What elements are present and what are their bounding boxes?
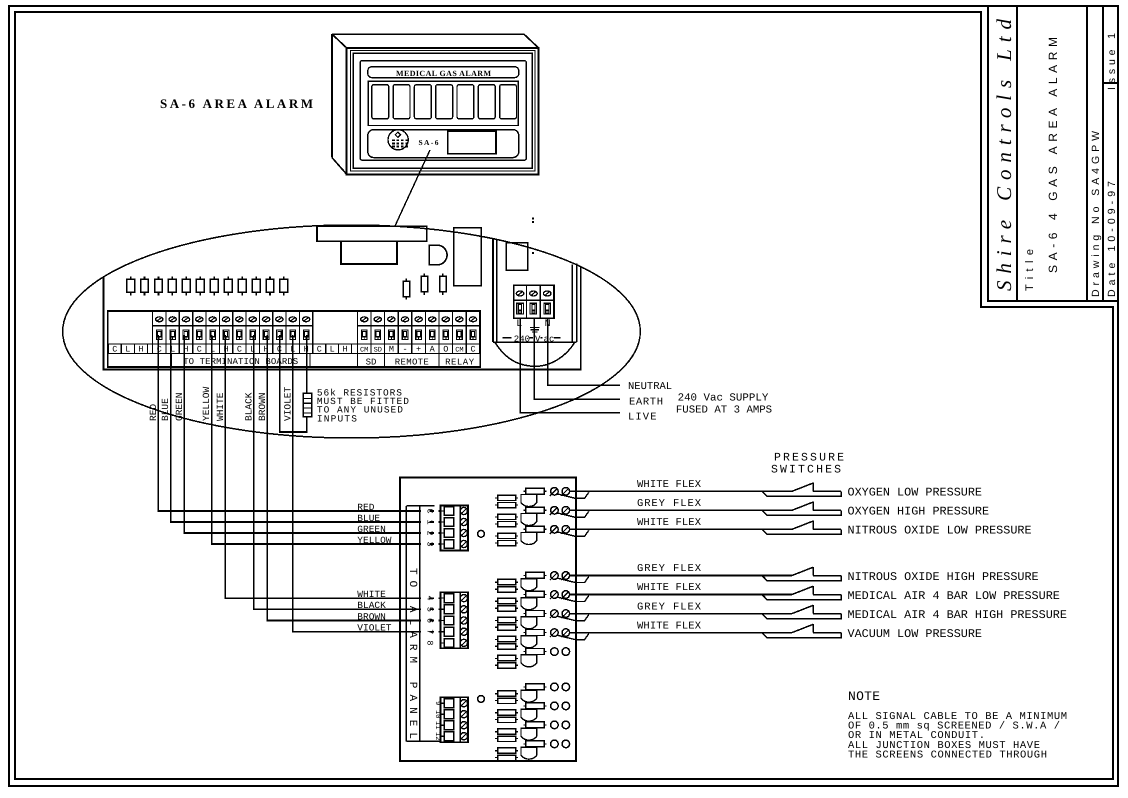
terminal strip group box SD bbox=[357, 354, 384, 368]
svg-text:GREEN: GREEN bbox=[357, 524, 386, 535]
resistor R4 (board) bbox=[168, 276, 176, 295]
junction row 10 dropper resistor pair bbox=[495, 710, 518, 723]
terminal TB3 row 10 clamp bbox=[441, 710, 454, 719]
svg-text:BLUE: BLUE bbox=[357, 513, 380, 524]
terminal strip input clamp 2 bbox=[170, 330, 176, 339]
svg-text:240 Vac SUPPLY: 240 Vac SUPPLY bbox=[678, 392, 769, 404]
svg-text:L: L bbox=[330, 345, 335, 355]
svg-text:OXYGEN LOW PRESSURE: OXYGEN LOW PRESSURE bbox=[848, 486, 983, 500]
terminal strip label cells bbox=[108, 344, 480, 355]
resistor R6 (board) bbox=[196, 276, 204, 295]
svg-text:TO TERMINATION BOARDS: TO TERMINATION BOARDS bbox=[183, 357, 298, 367]
junction row 7 LED lamp bbox=[521, 630, 547, 648]
wire BLACK bbox=[254, 335, 441, 609]
field wire pair stub row 3 bbox=[557, 530, 589, 536]
junction row 11 LED lamp bbox=[521, 722, 547, 740]
terminal strip input clamp 10 bbox=[277, 330, 283, 339]
terminal strip screw/clamp row divider bbox=[153, 325, 313, 327]
alarm panel window area bbox=[368, 81, 518, 125]
wire spare C4 bbox=[280, 335, 293, 432]
stray dot mark bbox=[532, 252, 534, 254]
PSU earth symbol bbox=[530, 320, 540, 332]
svg-text:-: - bbox=[402, 345, 407, 355]
alarm panel gas window 3 bbox=[414, 85, 431, 119]
terminal strip input column dividers bbox=[153, 311, 313, 344]
terminal strip band separator lines bbox=[108, 344, 480, 354]
svg-text:BLACK: BLACK bbox=[243, 392, 254, 421]
terminal TB2 row 4 clamp bbox=[441, 594, 454, 603]
svg-text:O: O bbox=[443, 345, 448, 355]
svg-text:10: 10 bbox=[433, 710, 441, 718]
wire GREEN bbox=[184, 335, 440, 533]
terminal TB1 row 1 clamp bbox=[441, 518, 454, 527]
resistor R15 (board right) bbox=[440, 273, 447, 294]
field wire pair stub row 2 bbox=[557, 511, 589, 517]
terminal strip input screw 9 bbox=[262, 317, 269, 322]
terminal TB3 row 9 clamp bbox=[441, 699, 454, 708]
terminal TB2 row 7 screw bbox=[460, 628, 467, 635]
svg-text:WHITE FLEX: WHITE FLEX bbox=[637, 517, 702, 529]
terminal strip input screw 6 bbox=[222, 317, 229, 322]
resistor R12 (board) bbox=[280, 276, 288, 295]
junction box outline bbox=[400, 478, 576, 761]
svg-text:GREY FLEX: GREY FLEX bbox=[637, 498, 702, 510]
svg-text:C: C bbox=[197, 345, 202, 355]
svg-text:7: 7 bbox=[424, 629, 434, 634]
svg-text:CM: CM bbox=[455, 347, 463, 355]
PCB board outline bbox=[103, 267, 580, 370]
PSU rating line segments bbox=[503, 337, 561, 339]
terminal strip output screw/clamp row divider bbox=[357, 325, 479, 327]
junction row 7 dropper resistor pair bbox=[495, 636, 518, 649]
terminal TB2 row 8 clamp bbox=[441, 639, 454, 648]
terminal strip input clamp 1 bbox=[156, 330, 162, 339]
junction row 9 LED lamp bbox=[521, 684, 547, 702]
terminal strip input screw 10 bbox=[276, 317, 283, 322]
terminal strip output clamp - bbox=[402, 330, 408, 339]
junction row 2 dropper resistor pair bbox=[495, 514, 518, 527]
pressure switch 7 bbox=[762, 624, 841, 638]
svg-text:6: 6 bbox=[424, 618, 434, 623]
note body text bbox=[848, 711, 1067, 761]
svg-text:+: + bbox=[416, 345, 421, 355]
svg-text:WHITE FLEX: WHITE FLEX bbox=[637, 582, 702, 594]
resistor R3 (board) bbox=[155, 276, 163, 295]
alarm panel gas window 5 bbox=[457, 85, 474, 119]
junction row 1 LED lamp bbox=[521, 488, 547, 506]
junction box inner panel TO ALARM PANEL bbox=[406, 506, 440, 742]
resistor R5 (board) bbox=[182, 276, 190, 295]
svg-text:EARTH: EARTH bbox=[629, 397, 663, 409]
terminal strip input screw 7 bbox=[236, 317, 243, 322]
terminal TB3 row 12 screw bbox=[460, 733, 467, 740]
svg-text:C: C bbox=[157, 345, 162, 355]
junction box mounting hole bottom bbox=[478, 696, 485, 703]
terminal strip output screw + bbox=[415, 317, 422, 322]
pressure switch 3 bbox=[762, 521, 841, 535]
svg-text:GREY FLEX: GREY FLEX bbox=[637, 563, 702, 575]
svg-text:SD: SD bbox=[366, 357, 377, 367]
svg-text:BLUE: BLUE bbox=[160, 398, 171, 421]
junction box terminal block TB3 bbox=[441, 697, 469, 742]
svg-text:L: L bbox=[516, 319, 522, 330]
junction row 4 screw terminal pair bbox=[550, 572, 570, 580]
field wire pair stub row 1 bbox=[557, 492, 589, 498]
alarm panel logo bbox=[388, 130, 408, 150]
junction row 8 dropper resistor pair bbox=[495, 655, 518, 668]
terminal strip output screw CM bbox=[361, 317, 368, 322]
terminal strip input clamp 12 bbox=[303, 330, 309, 339]
wire BLUE bbox=[171, 335, 441, 522]
svg-text:3: 3 bbox=[424, 541, 434, 546]
terminal strip input clamp 7 bbox=[237, 330, 243, 339]
junction row 1 dropper resistor pair bbox=[495, 495, 518, 508]
svg-text:RED: RED bbox=[148, 404, 159, 421]
title block frame bbox=[988, 6, 1118, 301]
svg-text:MEDICAL GAS ALARM: MEDICAL GAS ALARM bbox=[396, 69, 491, 78]
junction row 11 spare terminal pair bbox=[551, 721, 570, 729]
svg-text:NITROUS OXIDE LOW PRESSURE: NITROUS OXIDE LOW PRESSURE bbox=[848, 524, 1032, 538]
terminal TB1 row 2 screw bbox=[460, 529, 467, 536]
field wire row 3 bbox=[570, 528, 792, 530]
terminal strip input clamp 8 bbox=[250, 330, 256, 339]
junction box mounting hole top bbox=[478, 530, 485, 537]
junction row 6 screw terminal pair bbox=[550, 610, 570, 618]
junction row 12 LED lamp bbox=[521, 741, 547, 759]
terminal strip output clamp SD bbox=[375, 330, 381, 339]
terminal strip input clamp 5 bbox=[210, 330, 216, 339]
terminal TB2 row 4 screw bbox=[460, 595, 467, 602]
terminal number 1 bbox=[421, 518, 434, 525]
svg-text:H: H bbox=[342, 345, 347, 355]
terminal strip input screw 4 bbox=[196, 317, 203, 322]
terminal number 11 bbox=[430, 721, 441, 729]
terminal number C bbox=[421, 507, 434, 514]
terminal strip output clamp O bbox=[443, 330, 449, 339]
svg-text:V: V bbox=[535, 334, 541, 344]
field wire row 4 bbox=[570, 575, 792, 577]
terminal strip input screw 5 bbox=[209, 317, 216, 322]
terminal strip input clamp 6 bbox=[223, 330, 229, 339]
svg-text:RED: RED bbox=[357, 502, 374, 513]
junction row 8 spare terminal pair bbox=[551, 648, 570, 656]
junction row 9 dropper resistor pair bbox=[495, 691, 518, 704]
terminal strip output screw O bbox=[442, 317, 449, 322]
terminal TB2 row 5 screw bbox=[460, 606, 467, 613]
field wire row 5 bbox=[570, 594, 792, 596]
wire WHITE bbox=[225, 335, 440, 598]
svg-text:NOTE: NOTE bbox=[848, 689, 880, 704]
terminal TB1 row C clamp bbox=[441, 507, 454, 516]
junction box terminal block TB1 bbox=[441, 506, 469, 551]
resistor R8 (board) bbox=[224, 276, 232, 295]
alarm panel gas window 2 bbox=[393, 85, 410, 119]
svg-text:BROWN: BROWN bbox=[357, 611, 386, 622]
svg-text:4: 4 bbox=[424, 596, 434, 601]
terminal strip output screw CM bbox=[456, 317, 463, 322]
stray colon mark bbox=[532, 218, 534, 223]
pressure switch 2 bbox=[762, 502, 841, 516]
wire spare H4 with 56k resistor bbox=[293, 335, 312, 432]
terminal strip input clamp 4 bbox=[197, 330, 203, 339]
terminal strip input screw 2 bbox=[169, 317, 176, 322]
svg-text:INPUTS: INPUTS bbox=[317, 413, 357, 424]
field wire row 6 bbox=[570, 613, 792, 615]
heading PRESSURE SWITCHES bbox=[771, 452, 844, 477]
terminal number 12 bbox=[430, 732, 441, 740]
svg-text:8: 8 bbox=[424, 640, 434, 645]
terminal strip input screw 11 bbox=[289, 317, 296, 322]
terminal strip output screw C bbox=[469, 317, 476, 322]
detail balloon ellipse bbox=[63, 225, 641, 438]
pressure switch 5 bbox=[762, 586, 841, 600]
svg-text:CM: CM bbox=[360, 347, 368, 355]
svg-text:GREY FLEX: GREY FLEX bbox=[637, 601, 702, 613]
terminal strip input screw 8 bbox=[249, 317, 256, 322]
svg-text:C: C bbox=[424, 508, 434, 513]
pressure switch 4 bbox=[762, 567, 841, 581]
svg-text:NEUTRAL: NEUTRAL bbox=[628, 381, 672, 393]
alarm panel enclosure (3D box) bbox=[332, 34, 539, 174]
alarm panel gas window 7 bbox=[500, 85, 517, 119]
terminal strip output clamp CM bbox=[361, 330, 367, 339]
svg-text:5: 5 bbox=[424, 607, 434, 612]
board display ribbon rectangle bbox=[341, 241, 397, 264]
wire VIOLET bbox=[293, 335, 441, 632]
junction row 10 LED lamp bbox=[521, 703, 547, 721]
terminal number 9 bbox=[430, 700, 441, 707]
field wire row 2 bbox=[570, 509, 792, 511]
junction row 3 LED lamp bbox=[521, 526, 547, 544]
terminal number 8 bbox=[421, 639, 434, 646]
junction row 4 LED lamp bbox=[521, 572, 547, 590]
wire LIVE from L terminal bbox=[520, 318, 620, 412]
alarm panel gas window 1 bbox=[372, 85, 389, 119]
svg-text:L: L bbox=[125, 345, 130, 355]
terminal TB2 row 7 clamp bbox=[441, 627, 454, 636]
terminal strip input screw 12 bbox=[302, 317, 309, 322]
svg-text:A: A bbox=[430, 345, 436, 355]
pressure switch 1 bbox=[762, 483, 841, 497]
svg-text:YELLOW: YELLOW bbox=[357, 535, 392, 546]
terminal number 4 bbox=[421, 595, 434, 602]
alarm panel blank label window bbox=[448, 131, 496, 153]
terminal TB1 row 3 screw bbox=[460, 540, 467, 547]
board display connector rectangle bbox=[317, 226, 427, 241]
svg-text:VIOLET: VIOLET bbox=[357, 623, 392, 634]
terminal strip input screw 3 bbox=[182, 317, 189, 322]
terminal number 5 bbox=[421, 606, 434, 613]
terminal TB2 row 5 clamp bbox=[441, 605, 454, 614]
junction box terminal block TB2 bbox=[441, 592, 469, 648]
svg-text:2: 2 bbox=[424, 530, 434, 535]
terminal strip group box TO TERMINATION BOARDS bbox=[172, 354, 311, 368]
junction row 3 screw terminal pair bbox=[550, 526, 570, 534]
terminal TB3 row 10 screw bbox=[460, 711, 467, 718]
terminal TB2 row 8 screw bbox=[460, 639, 467, 646]
terminal strip outline bbox=[108, 311, 480, 367]
board buzzer (D-shape) bbox=[429, 245, 447, 265]
resistor R7 (board) bbox=[210, 276, 218, 295]
terminal strip output screw A bbox=[429, 317, 436, 322]
alarm panel nameplate MEDICAL GAS ALARM bbox=[368, 67, 519, 78]
terminal number 3 bbox=[421, 540, 434, 547]
terminal strip input screw 1 bbox=[156, 317, 163, 322]
resistor R14 (board right) bbox=[421, 273, 428, 294]
terminal strip input clamp 11 bbox=[290, 330, 296, 339]
svg-text:VACUUM LOW PRESSURE: VACUUM LOW PRESSURE bbox=[848, 627, 983, 641]
svg-text:SA-6 4 GAS AREA ALARM: SA-6 4 GAS AREA ALARM bbox=[1046, 37, 1060, 273]
terminal strip output clamp + bbox=[416, 330, 422, 339]
svg-text:C: C bbox=[237, 345, 242, 355]
PSU cable entry dip bbox=[495, 342, 575, 366]
terminal number 10 bbox=[430, 710, 441, 718]
junction row 2 LED lamp bbox=[521, 507, 547, 525]
svg-text:1: 1 bbox=[424, 519, 434, 524]
terminal strip output clamp CM bbox=[457, 330, 463, 339]
PSU enclosure bottom line bbox=[493, 341, 577, 343]
svg-text:REMOTE: REMOTE bbox=[395, 357, 429, 367]
junction row 4 dropper resistor pair bbox=[495, 579, 518, 592]
svg-text:BLACK: BLACK bbox=[357, 600, 386, 611]
svg-text:GREEN: GREEN bbox=[174, 392, 185, 421]
svg-text:RELAY: RELAY bbox=[445, 357, 475, 367]
terminal strip output clamp M bbox=[389, 330, 395, 339]
resistor R10 (board) bbox=[252, 276, 260, 295]
terminal TB1 row 3 clamp bbox=[441, 540, 454, 549]
wire EARTH from earth terminal bbox=[534, 318, 620, 399]
terminal strip input clamp 3 bbox=[183, 330, 189, 339]
resistor R13 (board right) bbox=[403, 278, 410, 299]
terminal strip output clamp C bbox=[470, 330, 476, 339]
terminal strip input clamp 9 bbox=[263, 330, 269, 339]
PSU mains terminal block 240V bbox=[514, 285, 554, 318]
svg-text:WHITE: WHITE bbox=[215, 392, 226, 421]
svg-text:LIVE: LIVE bbox=[628, 411, 657, 423]
svg-text:M: M bbox=[389, 345, 394, 355]
svg-text:H: H bbox=[138, 345, 143, 355]
svg-text:12: 12 bbox=[433, 732, 441, 740]
field wire row 1 bbox=[570, 490, 792, 492]
terminal strip output clamp A bbox=[429, 330, 435, 339]
note 56k resistors bbox=[317, 388, 409, 425]
svg-text:SD: SD bbox=[374, 347, 382, 355]
terminal number 7 bbox=[421, 628, 434, 635]
PSU enclosure left wall bbox=[493, 239, 497, 342]
svg-text:C: C bbox=[112, 345, 117, 355]
junction row 3 dropper resistor pair bbox=[495, 533, 518, 546]
junction row 12 spare terminal pair bbox=[551, 740, 570, 748]
svg-text:YELLOW: YELLOW bbox=[201, 386, 212, 421]
junction row 5 screw terminal pair bbox=[550, 591, 570, 599]
field wire pair stub row 6 bbox=[557, 615, 589, 621]
wire NEUTRAL from N terminal bbox=[548, 318, 620, 385]
wire RED bbox=[158, 335, 440, 511]
junction row 1 screw terminal pair bbox=[550, 488, 570, 496]
terminal strip output screw - bbox=[401, 317, 408, 322]
svg-text:240: 240 bbox=[514, 334, 530, 344]
field wire pair stub row 4 bbox=[557, 577, 589, 583]
junction row 8 LED lamp bbox=[521, 649, 547, 667]
resistor R9 (board) bbox=[238, 276, 246, 295]
svg-text:WHITE: WHITE bbox=[357, 589, 386, 600]
svg-text:VIOLET: VIOLET bbox=[282, 386, 293, 421]
resistor R11 (board) bbox=[266, 276, 274, 295]
terminal TB1 row 1 screw bbox=[460, 518, 467, 525]
junction row 7 screw terminal pair bbox=[550, 629, 570, 637]
svg-text:9: 9 bbox=[433, 701, 441, 705]
resistor R2 (board) bbox=[141, 276, 149, 295]
terminal TB2 row 6 screw bbox=[460, 617, 467, 624]
PSU enclosure right wall bbox=[572, 264, 577, 343]
terminal number 6 bbox=[421, 617, 434, 624]
junction row 2 screw terminal pair bbox=[550, 507, 570, 515]
terminal strip group box REMOTE bbox=[395, 354, 439, 368]
terminal number 2 bbox=[421, 529, 434, 536]
alarm panel gas window 4 bbox=[436, 85, 453, 119]
alarm panel bottom plate bbox=[368, 130, 519, 158]
junction row 12 dropper resistor pair bbox=[495, 748, 518, 761]
junction row 6 LED lamp bbox=[521, 611, 547, 629]
svg-text:Title: Title bbox=[1024, 249, 1036, 291]
svg-text:WHITE FLEX: WHITE FLEX bbox=[637, 479, 702, 491]
terminal strip output screw SD bbox=[374, 317, 381, 322]
svg-text:BROWN: BROWN bbox=[257, 392, 268, 421]
junction row 11 dropper resistor pair bbox=[495, 729, 518, 742]
terminal strip output screw M bbox=[388, 317, 395, 322]
junction row 10 spare terminal pair bbox=[551, 702, 570, 710]
field wire pair stub row 5 bbox=[557, 596, 589, 602]
pressure switch 6 bbox=[762, 605, 841, 619]
junction row 9 spare terminal pair bbox=[551, 683, 570, 691]
svg-text:THE SCREENS CONNECTED THROUGH: THE SCREENS CONNECTED THROUGH bbox=[848, 749, 1047, 761]
terminal strip output column dividers bbox=[357, 311, 479, 344]
field wire pair stub row 7 bbox=[557, 634, 589, 640]
PSU transformer rectangle bbox=[506, 243, 527, 270]
terminal TB3 row 11 screw bbox=[460, 722, 467, 729]
svg-text:ac: ac bbox=[544, 334, 555, 344]
svg-text:C: C bbox=[317, 345, 322, 355]
svg-text:MEDICAL AIR 4 BAR HIGH PRESSUR: MEDICAL AIR 4 BAR HIGH PRESSURE bbox=[848, 608, 1067, 622]
svg-text:FUSED AT 3 AMPS: FUSED AT 3 AMPS bbox=[676, 405, 772, 417]
svg-text:11: 11 bbox=[433, 721, 441, 729]
junction row 5 LED lamp bbox=[521, 591, 547, 609]
field wire row 7 bbox=[570, 632, 792, 634]
terminal TB2 row 6 clamp bbox=[441, 616, 454, 625]
terminal TB3 row 9 screw bbox=[460, 700, 467, 707]
terminal TB3 row 12 clamp bbox=[441, 732, 454, 741]
svg-text:C: C bbox=[470, 345, 475, 355]
junction row 6 dropper resistor pair bbox=[495, 617, 518, 630]
svg-text:WHITE FLEX: WHITE FLEX bbox=[637, 620, 702, 632]
alarm panel gas window 6 bbox=[478, 85, 495, 119]
wire BROWN bbox=[267, 335, 440, 621]
resistor R1 (board) bbox=[127, 276, 135, 295]
svg-text:NITROUS OXIDE HIGH PRESSURE: NITROUS OXIDE HIGH PRESSURE bbox=[848, 570, 1039, 584]
terminal TB1 row 2 clamp bbox=[441, 529, 454, 538]
terminal TB3 row 11 clamp bbox=[441, 721, 454, 730]
board relay rectangle bbox=[454, 228, 482, 286]
svg-text:SA-6: SA-6 bbox=[419, 138, 439, 147]
callout leader line from panel to detail balloon bbox=[395, 150, 430, 226]
svg-text:MEDICAL AIR 4 BAR LOW PRESSURE: MEDICAL AIR 4 BAR LOW PRESSURE bbox=[848, 589, 1060, 603]
junction row 5 dropper resistor pair bbox=[495, 598, 518, 611]
terminal TB1 row C screw bbox=[460, 507, 467, 514]
wire YELLOW bbox=[212, 335, 441, 544]
svg-text:OXYGEN HIGH PRESSURE: OXYGEN HIGH PRESSURE bbox=[848, 505, 990, 519]
